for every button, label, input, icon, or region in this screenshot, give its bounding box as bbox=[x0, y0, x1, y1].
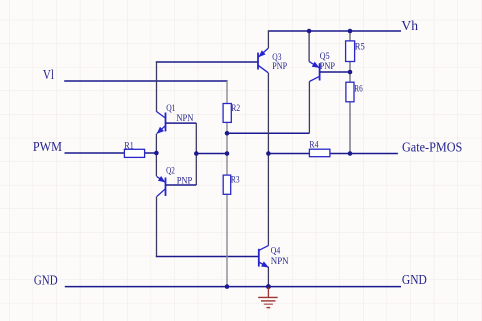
wire R3 bottom to GND lead bbox=[226, 194, 228, 286]
junction dot base join branch bbox=[194, 151, 199, 156]
svg-text:PNP: PNP bbox=[272, 62, 287, 72]
wire R4 to Gate-PMOS bbox=[330, 153, 398, 155]
junction dot R1 emitters node bbox=[154, 151, 159, 156]
transistor Q1 NPN bbox=[157, 104, 197, 134]
wire Q3 collector to Q4 collector vertical bbox=[267, 73, 269, 246]
resistor R4 bbox=[309, 141, 330, 157]
junction dot main vertical R4 bbox=[266, 151, 271, 156]
wire Q1 emitter / Q2 emitter vertical bbox=[155, 134, 157, 177]
wire Q3 emitter to Vh vertical bbox=[267, 30, 269, 48]
svg-text:PNP: PNP bbox=[320, 62, 335, 72]
wire node to R4 bbox=[268, 153, 309, 155]
wire base join vertical bbox=[195, 123, 197, 185]
svg-text:PWM: PWM bbox=[33, 139, 62, 154]
junction dot R6 bottom R4 right bbox=[348, 151, 353, 156]
svg-text:Vl: Vl bbox=[43, 67, 54, 82]
wire Q5 collector vertical bbox=[308, 82, 310, 134]
transistor Q3 PNP bbox=[258, 48, 287, 72]
ground symbol bbox=[258, 287, 278, 308]
svg-text:R6: R6 bbox=[354, 84, 363, 94]
wire R6 bottom lead bbox=[349, 102, 351, 154]
wire Q3 base to Q1 collector horizontal bbox=[156, 61, 258, 63]
svg-text:Q2: Q2 bbox=[166, 166, 175, 176]
junction dot R2R3 node branch bbox=[225, 151, 230, 156]
wire Q4 emitter to GND vertical bbox=[267, 267, 269, 287]
resistor R3 bbox=[223, 175, 240, 194]
resistor R1 bbox=[124, 142, 144, 158]
svg-text:R5: R5 bbox=[355, 43, 365, 53]
junction dot R5 top at Vh bbox=[348, 29, 353, 34]
wire R2R3 node to Q5 collector branch bbox=[227, 132, 309, 134]
wire R5 top lead bbox=[349, 31, 351, 41]
svg-text:Q4: Q4 bbox=[271, 247, 281, 257]
junction dot R3 bottom at GND bbox=[225, 284, 230, 289]
svg-text:R2: R2 bbox=[231, 104, 240, 114]
wire bases node branch bbox=[196, 153, 227, 155]
junction dot Q5 base R5 R6 bbox=[348, 70, 353, 75]
transistor Q4 NPN bbox=[259, 245, 289, 267]
wire Vl to R2 top lead bbox=[226, 81, 228, 104]
svg-text:GND: GND bbox=[34, 273, 58, 288]
svg-text:R4: R4 bbox=[309, 141, 318, 151]
resistor R2 bbox=[223, 104, 240, 123]
resistor R5 bbox=[346, 41, 365, 62]
wire Vl horizontal bbox=[64, 80, 227, 82]
junction dot Q4 emitter at GND bbox=[266, 284, 271, 289]
wire R5 bottom lead bbox=[349, 62, 351, 73]
svg-text:R1: R1 bbox=[124, 142, 134, 152]
wire PWM to R1 bbox=[65, 152, 125, 154]
transistor Q2 PNP bbox=[157, 166, 197, 196]
svg-text:PNP: PNP bbox=[177, 176, 193, 186]
wire Q5 emitter to Vh vertical bbox=[308, 31, 310, 62]
svg-text:Q1: Q1 bbox=[166, 104, 175, 114]
wire Q2 collector to Q4 base horizontal bbox=[156, 256, 259, 258]
svg-text:GND: GND bbox=[402, 272, 427, 287]
junction dot R2 bottom branch bbox=[225, 131, 230, 136]
junction dot Q5 emitter at Vh bbox=[307, 29, 312, 34]
wire R1 to node bbox=[145, 152, 157, 154]
svg-text:NPN: NPN bbox=[176, 114, 193, 124]
wire R2 bottom to R3 top lead bbox=[226, 122, 228, 175]
transistor Q5 PNP bbox=[309, 52, 350, 82]
wire Q2 collector vertical bbox=[156, 196, 158, 257]
svg-text:R3: R3 bbox=[231, 176, 240, 186]
wire R6 top lead bbox=[349, 72, 351, 82]
svg-text:Gate-PMOS: Gate-PMOS bbox=[402, 140, 462, 155]
svg-text:Vh: Vh bbox=[401, 18, 418, 33]
wire Vh rail bbox=[268, 30, 401, 32]
svg-text:NPN: NPN bbox=[271, 257, 289, 267]
wire Q1 collector vertical bbox=[156, 61, 158, 112]
resistor R6 bbox=[346, 82, 363, 102]
wire GND rail bbox=[65, 286, 401, 288]
svg-text:Q5: Q5 bbox=[320, 52, 330, 62]
